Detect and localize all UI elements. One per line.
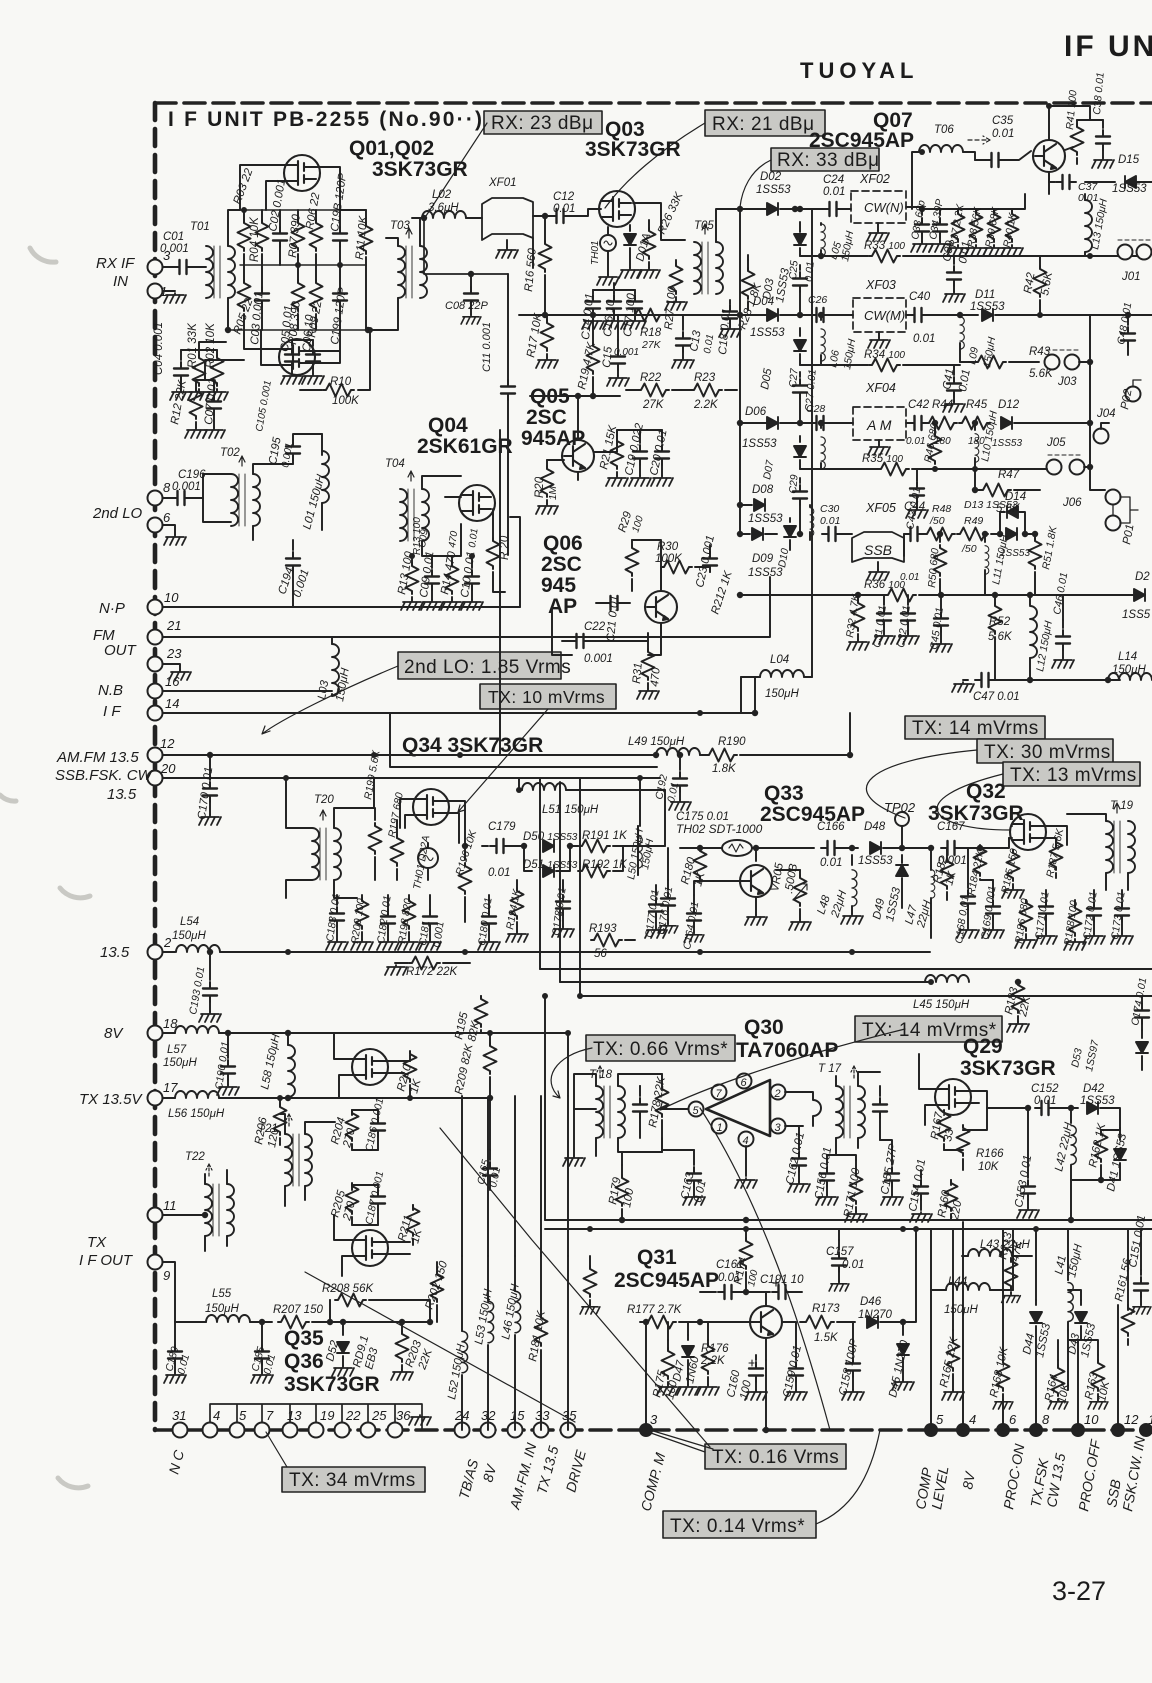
capacitor C19 0.022: [639, 430, 641, 443]
capacitor C06 10: [312, 340, 314, 346]
svg-text:2SC945AP: 2SC945AP: [760, 803, 865, 826]
filter SSB box: [852, 532, 904, 562]
svg-text:1: 1: [717, 1122, 723, 1134]
resistor R184 22K: [979, 847, 981, 849]
svg-text:0.01: 0.01: [553, 203, 575, 215]
resistor R160 220: [950, 1180, 952, 1185]
svg-text:TX: 0.16 Vrms: TX: 0.16 Vrms: [712, 1447, 839, 1468]
svg-text:D46: D46: [860, 1296, 882, 1308]
wire pin9 TX IF OUT: [163, 1262, 175, 1322]
resistor R05 22: [238, 280, 251, 311]
wire top tie: [181, 342, 226, 350]
resistor R167 33: [943, 1114, 945, 1116]
svg-text:14: 14: [1148, 1412, 1152, 1427]
svg-text:0.01: 0.01: [842, 1259, 864, 1271]
capacitor C09 0.01: [431, 556, 433, 568]
capacitor C39 0.01: [953, 256, 955, 264]
T06 inductor: [919, 145, 963, 152]
resistor R17 10K: [546, 315, 548, 320]
svg-text:R10: R10: [330, 376, 352, 388]
inductor L46 vertical: [514, 1335, 516, 1430]
svg-text:I F: I F: [103, 703, 121, 720]
capacitor C28: [810, 416, 830, 430]
svg-text:4: 4: [213, 1408, 220, 1423]
C31 0.01 vertical: [883, 595, 885, 605]
svg-text:R43: R43: [1029, 346, 1051, 358]
R37 2.2K: [957, 209, 959, 211]
capacitor C187 0.001: [377, 1185, 379, 1193]
svg-text:TX: 30 mVrms: TX: 30 mVrms: [984, 742, 1111, 763]
resistor R10 100K: [300, 389, 322, 391]
svg-text:RX: 21 dBμ: RX: 21 dBμ: [712, 114, 815, 135]
svg-text:7: 7: [266, 1408, 274, 1423]
resistor R182 1K: [946, 861, 948, 863]
svg-text:13.5: 13.5: [107, 786, 137, 803]
measurement highlight boxes: [282, 110, 1140, 1538]
svg-text:TX 13.5V: TX 13.5V: [79, 1091, 144, 1108]
svg-text:T21: T21: [258, 1123, 278, 1135]
transformer T22: [205, 1184, 212, 1236]
node: [365, 327, 371, 333]
svg-text:D13 1SS53: D13 1SS53: [964, 499, 1018, 511]
svg-text:T04: T04: [385, 458, 405, 470]
resistor R162 1K: [1100, 1130, 1102, 1135]
capacitor C169 0.001: [992, 880, 994, 898]
left pin name labels: [55, 255, 154, 1269]
capacitor C195 0.001: [292, 458, 294, 464]
resistor R195 82K vertical: [475, 996, 498, 1190]
svg-text:C08 22P: C08 22P: [445, 300, 488, 312]
svg-text:TX: TX: [87, 1234, 107, 1251]
svg-text:L14: L14: [1118, 651, 1137, 663]
bottom vertical labels: [165, 1434, 1148, 1512]
jack J05: [1047, 460, 1062, 475]
svg-text:R 20: R 20: [499, 535, 511, 560]
resistor R163 10K: [1097, 1355, 1099, 1360]
resistor R206 120: [279, 1098, 281, 1106]
resistor R164 10K: [1057, 1360, 1059, 1365]
svg-text:TUOYAL: TUOYAL: [800, 58, 918, 83]
inductor L55 150uH: [206, 1315, 250, 1322]
svg-text:I F UNIT PB-2255 (No.90··): I F UNIT PB-2255 (No.90··): [168, 108, 484, 131]
capacitor C46 0.01: [1062, 620, 1064, 628]
svg-text:C04 0.001: C04 0.001: [153, 322, 165, 375]
svg-text:19: 19: [320, 1408, 334, 1423]
diode D41: [1119, 1128, 1121, 1140]
svg-text:R02 10K: R02 10K: [205, 322, 217, 368]
svg-text:6: 6: [741, 1077, 748, 1089]
resistor R188 100: [1074, 900, 1076, 905]
svg-text:R176: R176: [701, 1343, 729, 1355]
wire Q06 collector: [632, 540, 661, 591]
capacitor C177 0.01: [655, 885, 657, 895]
svg-text:Q06: Q06: [543, 532, 583, 555]
svg-text:1SS53: 1SS53: [748, 567, 783, 579]
FET Q01: [284, 155, 320, 191]
svg-text:C25: C25: [787, 260, 801, 280]
capacitor C08 22P: [470, 274, 472, 287]
inductor L53 vertical: [487, 1345, 489, 1430]
svg-text:T 17: T 17: [818, 1063, 842, 1075]
capacitor C17 100: [634, 290, 636, 294]
diode D49 (zener up): [901, 855, 903, 863]
C32 0.01 vertical: [907, 595, 909, 605]
resistor R193 56: [592, 939, 594, 941]
resistor R23 2.2K: [691, 384, 722, 397]
capacitor C155 27P: [891, 1150, 893, 1165]
resistor R08 390: [292, 280, 305, 311]
svg-text:3: 3: [650, 1412, 658, 1427]
inductor L58 150uH vertical: [287, 1033, 289, 1045]
inductor L10: [974, 423, 976, 430]
svg-text:8V: 8V: [104, 1025, 124, 1042]
resistor R33 100: [869, 250, 900, 263]
resistor R178 22K: [661, 1074, 663, 1086]
svg-text:L49 150μH: L49 150μH: [628, 736, 685, 748]
svg-text:36: 36: [396, 1408, 411, 1423]
capacitor C180 0.01: [488, 895, 490, 910]
resistor R205 270: [351, 1185, 353, 1190]
svg-text:TH02 SDT-1000: TH02 SDT-1000: [676, 822, 763, 836]
svg-text:/50: /50: [929, 515, 945, 527]
svg-text:IF UN: IF UN: [1064, 30, 1152, 63]
svg-text:100K: 100K: [655, 553, 683, 565]
resistor R19 4.7K: [592, 315, 594, 343]
svg-text:C11 0.001: C11 0.001: [481, 322, 493, 372]
svg-text:T03: T03: [390, 220, 410, 232]
resistor R11 10K: [360, 223, 373, 254]
svg-text:L44: L44: [948, 1276, 967, 1288]
svg-text:Q04: Q04: [428, 414, 468, 437]
FET Q04: [459, 485, 495, 521]
capacitor C152 0.01: [987, 1107, 1025, 1109]
thermistor TH01: [600, 235, 616, 251]
svg-text:C35: C35: [992, 115, 1014, 127]
svg-text:11: 11: [163, 1198, 177, 1213]
svg-text:31: 31: [172, 1408, 186, 1423]
verticals to mid band: [462, 1096, 568, 1256]
wire pin3 to T01: [163, 266, 175, 268]
resistor R186 680: [1025, 900, 1027, 902]
capacitor C21 0.01: [622, 602, 630, 604]
svg-text:945: 945: [541, 574, 576, 597]
svg-text:D48: D48: [864, 821, 886, 833]
svg-text:L55: L55: [212, 1288, 232, 1300]
diode D05 (vertical): [799, 328, 801, 336]
pin 23: [148, 657, 163, 672]
inductor L50: [637, 826, 639, 831]
jack J06 / P01: [1106, 490, 1121, 505]
cap right of T17: [879, 1086, 881, 1096]
diode D44 1SS53: [1035, 1300, 1037, 1305]
bus pin20 y778: [163, 713, 660, 826]
resistor R44 180: [926, 417, 957, 430]
diode D53 1SS97: [1141, 1030, 1143, 1038]
svg-text:Q29: Q29: [963, 1035, 1003, 1058]
capacitor C16 10: [613, 290, 615, 294]
svg-text:0.01: 0.01: [803, 261, 817, 282]
wire into D02: [758, 208, 766, 210]
cluster A labels: [153, 167, 410, 426]
resistor R14 470: [451, 556, 453, 564]
svg-text:5: 5: [693, 1105, 700, 1117]
wires around Q05: [530, 396, 620, 480]
bus y256 with R33: [800, 255, 868, 257]
R39 68K: [993, 209, 995, 211]
svg-text:C15: C15: [601, 346, 615, 369]
bus pin12 y755: [163, 754, 655, 756]
svg-text:12: 12: [160, 736, 175, 751]
svg-text:R35 100: R35 100: [862, 453, 903, 465]
resistor R21 15K: [616, 430, 618, 438]
test point TP02: [895, 812, 909, 826]
capacitor C198 120P: [333, 227, 347, 247]
diode D43 1SS53: [1080, 1300, 1082, 1305]
svg-text:Q34 3SK73GR: Q34 3SK73GR: [402, 734, 543, 757]
svg-text:A M: A M: [866, 417, 892, 433]
svg-text:C01: C01: [163, 231, 184, 243]
svg-text:C29: C29: [787, 474, 801, 494]
bus y365 with R34: [800, 364, 868, 366]
svg-text:L45 150μH: L45 150μH: [913, 999, 970, 1011]
resistor R12 22K: [195, 380, 197, 388]
resistor R03 22: [238, 220, 251, 251]
diode D50: [543, 840, 554, 852]
resistor R200 100: [361, 895, 363, 900]
resistor R183 22K: [1017, 982, 1019, 984]
wire: [193, 266, 206, 268]
transformer T05: [694, 242, 701, 294]
wires T04 to Q04: [422, 476, 461, 556]
svg-text:0.001: 0.001: [614, 347, 639, 358]
wire pin21 FM OUT: [163, 577, 770, 637]
capacitor C173 0.01: [1121, 890, 1123, 900]
resistor R203 22K: [401, 1322, 403, 1332]
wire XF01 to C12: [533, 215, 553, 217]
wire 2nd LO pin8: [163, 497, 173, 499]
svg-text:AM.FM 13.5: AM.FM 13.5: [56, 749, 139, 766]
svg-text:C28: C28: [806, 403, 825, 415]
svg-text:R22: R22: [640, 372, 662, 384]
svg-text:2.2K: 2.2K: [693, 399, 719, 411]
wire to Q03: [570, 209, 601, 216]
crystal filter XF01: [482, 198, 533, 240]
svg-text:0.001: 0.001: [160, 243, 189, 255]
resistor R29 100: [631, 540, 633, 545]
capacitor C163 0.01: [693, 1150, 695, 1165]
capacitor C153 0.01: [1027, 1170, 1029, 1178]
capacitor C30 0.01: [822, 527, 842, 541]
svg-text:C24: C24: [823, 174, 844, 186]
svg-text:2SC945AP: 2SC945AP: [614, 1269, 719, 1292]
inductor L51 150uH: [519, 789, 522, 791]
cluster C labels: [172, 300, 799, 703]
junction dots on buses: [241, 103, 1093, 1325]
capacitor C47 0.01 + ground: [963, 679, 968, 681]
svg-text:2: 2: [774, 1088, 781, 1100]
svg-text:Q30: Q30: [744, 1016, 784, 1039]
svg-text:10: 10: [164, 590, 179, 605]
diode D03 (vertical): [799, 222, 801, 232]
diode D02: [767, 203, 778, 215]
filter AM box: [853, 407, 906, 440]
svg-text:100K: 100K: [332, 395, 360, 407]
inductor L05: [820, 223, 822, 225]
capacitor C182 0.01: [387, 895, 389, 910]
svg-text:D12: D12: [998, 399, 1020, 411]
wire pin16: [163, 690, 332, 692]
diode D10 (vertical): [789, 518, 791, 522]
resistor R210 1K: [409, 1055, 411, 1061]
diode D06: [740, 422, 766, 424]
FET Q02: [279, 339, 315, 375]
punch hole shadows: [0, 248, 90, 1488]
svg-text:D08: D08: [752, 484, 774, 496]
resistor R197 680: [396, 820, 398, 838]
svg-text:6: 6: [163, 510, 171, 525]
svg-text:SSB.FSK. CW: SSB.FSK. CW: [55, 767, 154, 784]
svg-text:23: 23: [166, 646, 182, 661]
capacitor C167 0.001: [941, 841, 961, 855]
svg-text:D02: D02: [760, 171, 782, 183]
resistor R46 680 (vertical): [934, 423, 936, 435]
bottom right solder dots: [639, 1423, 1152, 1437]
bottom pin verticals: [646, 1222, 1118, 1430]
long verticals: [500, 238, 533, 755]
C29 0.01 vertical: [799, 478, 801, 483]
resistor R04 10K: [256, 220, 269, 251]
svg-text:2.2K: 2.2K: [700, 1355, 726, 1367]
svg-text:0.001: 0.001: [584, 653, 613, 665]
resistor R207 150: [278, 1316, 309, 1329]
resistor R06 22: [310, 220, 323, 251]
capacitor C189 0.01: [174, 1322, 176, 1345]
diode D45 1N270: [902, 1322, 904, 1335]
svg-text:SSB: SSB: [864, 542, 892, 558]
pin 17: [148, 1091, 163, 1106]
transistor Q05: [562, 440, 594, 472]
FET Q34: [413, 789, 449, 825]
capacitor C171 0.01: [1045, 890, 1047, 898]
resistor R20 1M: [546, 460, 548, 466]
svg-text:L43 22μH: L43 22μH: [980, 1239, 1030, 1251]
svg-text:R01 33K: R01 33K: [187, 322, 199, 368]
svg-text:XF04: XF04: [865, 381, 896, 395]
capacitor C156 0.01: [826, 1155, 828, 1165]
pin 11: [148, 1208, 163, 1223]
svg-text:T 19: T 19: [1110, 800, 1134, 812]
resistor R49 150: [957, 528, 988, 541]
svg-text:TX: 34 mVrms: TX: 34 mVrms: [289, 1470, 416, 1491]
svg-text:D06: D06: [745, 406, 767, 418]
svg-text:21: 21: [166, 618, 181, 633]
svg-text:C167: C167: [937, 821, 965, 833]
svg-text:R36 100: R36 100: [864, 579, 905, 591]
svg-text:R190: R190: [718, 736, 746, 748]
FET Q32: [1010, 814, 1046, 850]
svg-text:D2: D2: [1135, 571, 1150, 583]
wire T01 secondary rails: [228, 210, 240, 330]
svg-text:1SS53: 1SS53: [970, 301, 1005, 313]
svg-text:R207 150: R207 150: [273, 1304, 323, 1316]
svg-text:C22: C22: [584, 621, 606, 633]
wire pin23 ground: [163, 664, 180, 670]
inductor L03 150uH: [331, 637, 333, 644]
resistor R166 10K: [962, 1129, 964, 1131]
capacitor C194 0.001: [292, 540, 294, 550]
svg-text:J01: J01: [1121, 271, 1141, 283]
title block: [168, 30, 1152, 1606]
svg-text:1SS53: 1SS53: [748, 513, 783, 525]
pin 12: [148, 748, 163, 763]
resistor R02 10K: [211, 355, 224, 386]
diode D51: [524, 846, 532, 871]
capacitor C12 0.01: [550, 209, 570, 223]
resistor R30 100K: [661, 561, 692, 574]
svg-text:1SS53: 1SS53: [750, 327, 785, 339]
svg-text:J04: J04: [1096, 408, 1116, 420]
svg-text:2SC945AP: 2SC945AP: [809, 129, 914, 152]
transformer T04: [400, 489, 407, 541]
svg-text:1M: 1M: [548, 485, 559, 500]
capacitor C179 0.01: [482, 845, 488, 847]
svg-text:D09: D09: [752, 553, 774, 565]
resistor R202 150 vertical: [436, 1262, 438, 1270]
pin18 8V rail + L57: [163, 1032, 175, 1034]
node: [225, 327, 231, 333]
resistor R171 100: [855, 1160, 857, 1175]
wire pin14: [163, 677, 755, 713]
inductor L04 150uH: [741, 676, 760, 678]
svg-text:OUT: OUT: [104, 642, 138, 659]
svg-text:D42: D42: [1083, 1083, 1105, 1095]
resistor R35 100: [878, 463, 909, 476]
inductor L12 150uH: [1029, 595, 1031, 605]
svg-text:6: 6: [1009, 1412, 1017, 1427]
svg-text:C196: C196: [178, 469, 206, 481]
wire Q03 drain to T05: [633, 203, 685, 240]
svg-text:470: 470: [649, 666, 663, 687]
resistor R196 10K: [464, 846, 466, 860]
capacitor C23 0.001: [709, 545, 711, 552]
svg-text:L04: L04: [770, 654, 789, 666]
svg-text:XF01: XF01: [488, 177, 517, 189]
FET Q29: [935, 1079, 971, 1115]
capacitor C151 0.01: [1140, 1270, 1142, 1275]
capacitor C42 0.01: [906, 422, 911, 424]
svg-text:1.5K: 1.5K: [814, 1332, 839, 1344]
wire T03 out to L02: [368, 218, 422, 330]
capacitor C11 0.001: [507, 274, 509, 380]
pin 8: [148, 491, 163, 506]
ground pin1: [163, 290, 175, 292]
capacitor C172 0.01: [1093, 890, 1095, 900]
svg-text:5.6K: 5.6K: [988, 631, 1013, 643]
left connector pins: [148, 260, 163, 1270]
wire pin10 N.P: [163, 606, 520, 608]
svg-text:13.5: 13.5: [100, 944, 130, 961]
transformer T20: [312, 828, 319, 880]
svg-text:0.01: 0.01: [820, 515, 840, 527]
capacitor C176 0.01: [667, 880, 669, 890]
svg-text:L54: L54: [180, 916, 199, 928]
svg-text:TX: 10 mVrms: TX: 10 mVrms: [488, 687, 605, 707]
svg-text:XF05: XF05: [865, 501, 896, 515]
C25 0.01 vertical: [799, 265, 801, 270]
big component labels: [284, 109, 1056, 1396]
svg-text:R52: R52: [989, 616, 1011, 628]
pin 20: [148, 771, 163, 786]
